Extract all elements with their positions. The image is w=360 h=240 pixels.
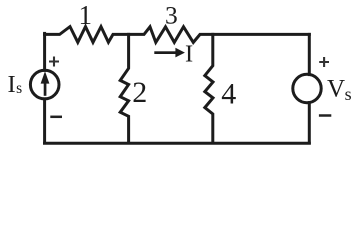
wire left branch lower	[43, 99, 46, 143]
svg-text:I: I	[185, 41, 193, 68]
current source Is circle	[30, 70, 59, 99]
wire left branch upper	[43, 33, 46, 70]
svg-text:3: 3	[165, 0, 178, 29]
svg-text:2: 2	[132, 76, 147, 109]
svg-text:1: 1	[79, 0, 93, 30]
svg-text:4: 4	[221, 77, 236, 110]
wire top rail with resistor R1 and resistor R3 zigzags	[45, 27, 310, 43]
wire right branch upper	[308, 34, 311, 74]
resistor R2 vertical branch	[120, 34, 128, 143]
wire right branch lower	[308, 103, 311, 143]
minus sign of Is	[50, 116, 62, 119]
plus sign of Is	[49, 57, 59, 67]
resistor R4 vertical branch	[205, 34, 213, 143]
current I arrow	[154, 48, 185, 58]
plus sign of Vs	[319, 57, 329, 67]
minus sign of Vs	[319, 114, 331, 117]
svg-text:Is: Is	[8, 71, 23, 98]
current source arrow	[41, 71, 50, 96]
wire bottom rail	[45, 142, 310, 145]
svg-text:Vs: Vs	[327, 75, 352, 104]
voltage source Vs circle	[293, 74, 321, 102]
